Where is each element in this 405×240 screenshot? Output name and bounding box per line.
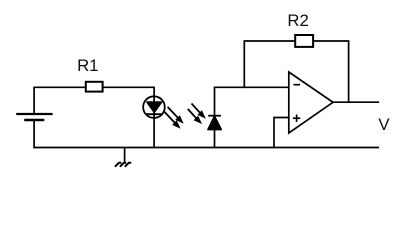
wire top-left rail to R1 and LED [33, 86, 155, 88]
svg-text:R2: R2 [287, 11, 308, 30]
svg-text:V: V [378, 115, 390, 134]
op-amp U1 plus sign [293, 115, 300, 122]
resistor R2 [295, 35, 313, 47]
photodiode D2 cathode bar [208, 115, 221, 117]
resistor R1 [86, 82, 103, 92]
wire bottom ground rail [33, 147, 379, 149]
LED D1 circle [143, 96, 165, 118]
wire op-amp output [333, 101, 379, 103]
wire non-inverting input L [274, 118, 289, 149]
svg-text:R1: R1 [77, 56, 98, 75]
wire feedback right vertical [348, 41, 350, 103]
LED D1 triangle [147, 102, 162, 112]
light reception arrow 2 [188, 109, 201, 123]
light emission arrow 1 [168, 107, 183, 123]
light emission arrow 2 [165, 112, 180, 128]
wire inverting input rail [214, 86, 289, 88]
wire feedback left vertical [243, 41, 245, 88]
wire battery negative lead [33, 120, 35, 148]
wire feedback top rail through R2 [244, 40, 350, 42]
wire battery positive lead [33, 87, 35, 114]
battery B1 [16, 114, 52, 120]
wire photodiode vertical [214, 87, 216, 147]
light reception arrow 1 [192, 104, 205, 118]
wire LED vertical [153, 87, 155, 147]
ground symbol [115, 148, 131, 167]
op-amp U1 [289, 72, 333, 133]
photodiode D2 triangle [208, 116, 221, 129]
LED D1 cathode bar [146, 113, 163, 115]
op-amp U1 minus sign [294, 84, 301, 86]
